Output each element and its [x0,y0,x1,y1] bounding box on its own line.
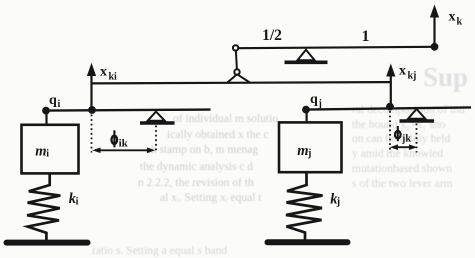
node dot x_kj [386,103,394,111]
dimension arrow phi_jk [390,144,417,150]
svg-text:ki: ki [109,72,118,83]
dotted reference line below left fulcrum [155,126,157,153]
left lever bar (q_i lever) [46,110,211,111]
axis arrow x_k [430,5,439,47]
fulcrum triangle under left lever [148,112,165,121]
svg-text:q: q [310,92,318,107]
dotted reference line below right fulcrum [416,124,418,153]
svg-text:of individual m solutio: of individual m solutio [173,113,278,125]
label q_i [49,93,61,110]
dimension arrow phi_ik [92,148,155,154]
svg-text:kj: kj [408,71,417,82]
svg-text:1: 1 [362,28,370,45]
svg-text:j: j [307,148,311,159]
fulcrum triangle under top lever [297,50,314,61]
label x_ki [100,65,117,83]
dotted reference line below x_kj node [389,111,391,153]
link support triangle on middle lever [227,74,249,82]
svg-text:q: q [49,93,57,108]
pin joint (open circle) on link triangle [234,69,239,74]
svg-text:n 2.2.2, the revision of th: n 2.2.2, the revision of th [138,177,254,189]
spring k_j [286,172,323,240]
ground (left) [7,240,88,246]
middle lever bar (x_ki to x_kj) [92,82,392,83]
svg-text:s of the two lever arm: s of the two lever arm [352,178,453,190]
svg-text:ral decomposition of ind: ral decomposition of ind [352,104,465,116]
svg-text:x: x [399,64,406,79]
label m_i [35,144,49,160]
svg-text:i: i [76,197,79,208]
connector rod q_j to mass [306,110,308,123]
svg-text:1/2: 1/2 [262,27,282,44]
svg-text:ically obtained x the c: ically obtained x the c [167,129,269,141]
fulcrum base bar under top lever [285,60,328,64]
label q_j [310,92,322,110]
label x_k [449,10,463,28]
node dot x_ki [88,106,96,114]
svg-text:i: i [58,99,61,110]
svg-text:m: m [35,144,46,160]
svg-text:i: i [46,149,49,160]
label phi_jk [395,126,411,145]
dotted reference line below x_ki node [91,115,93,153]
mass m_i [22,125,79,174]
svg-text:Sup: Sup [423,62,468,92]
fulcrum triangle under right lever [408,109,425,119]
svg-text:al xᵢ. Setting xᵢ equal t: al xᵢ. Setting xᵢ equal t [160,192,262,204]
fulcrum base bar under right lever [400,119,435,123]
right lever bar (q_j lever) [306,107,471,109]
ground (right) [268,239,348,245]
svg-text:uh stamp on b, m menag: uh stamp on b, m menag [145,144,258,156]
svg-text:k: k [457,17,463,28]
label x_kj [399,64,416,82]
pin joint (open circle) at left end of top lever [233,45,238,50]
node dot q_j [302,106,310,114]
ghost body text middle column (bleed-through) [138,113,278,204]
node dot q_i [42,107,50,115]
node dot at right end of top lever [431,43,439,51]
axis arrow x_ki [87,63,96,111]
label k_j [330,192,340,208]
label phi_ik [112,130,129,149]
svg-text:mutationbased shown: mutationbased shown [352,163,452,175]
mass m_j [279,122,342,172]
connector rod q_i to mass [45,111,47,125]
fulcrum base bar under left lever [140,121,175,125]
spring k_i [27,174,60,241]
axis arrow x_kj [386,64,395,107]
svg-text:x: x [100,65,107,80]
link rod from top lever to middle lever [236,51,237,70]
svg-text:the dynamic analysis c d: the dynamic analysis c d [140,161,253,173]
label m_j [297,143,311,159]
svg-text:ik: ik [119,138,129,150]
top lever bar [236,47,435,48]
ghost bottom line (bleed-through) [92,245,227,257]
svg-text:j: j [336,197,340,208]
svg-text:j: j [318,99,322,110]
ghost body text right column (bleed-through) [352,104,465,190]
label k_i [69,191,79,208]
ghost heading "Sup" (bleed-through) [423,62,468,92]
svg-text:m: m [297,143,308,159]
svg-text:x: x [449,10,456,25]
svg-text:jk: jk [401,134,411,145]
svg-text:ratio s. Setting a equal s b: ratio s. Setting a equal s band [92,245,227,257]
